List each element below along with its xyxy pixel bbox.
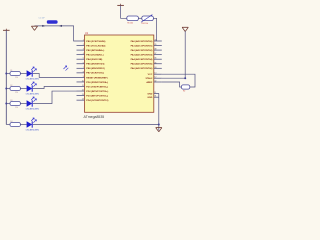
svg-text:ATmega8535: ATmega8535 — [84, 115, 105, 119]
svg-text:R2: R2 — [10, 85, 12, 87]
svg-text:2: 2 — [83, 44, 84, 46]
svg-text:XTAL2: XTAL2 — [146, 77, 154, 80]
svg-text:C1 1nF: C1 1nF — [39, 17, 46, 19]
svg-text:GND: GND — [147, 93, 152, 95]
svg-text:R2: R2 — [183, 91, 185, 93]
svg-text:PA2 (ADC2/PCINT02): PA2 (ADC2/PCINT02) — [131, 49, 153, 52]
svg-text:11: 11 — [154, 92, 156, 94]
svg-text:LED-BIRU-BIRU: LED-BIRU-BIRU — [26, 130, 40, 132]
svg-text:PD2 (INT0/PCINT10+): PD2 (INT0/PCINT10+) — [86, 91, 108, 93]
svg-text:40: 40 — [154, 40, 156, 42]
svg-text:220: 220 — [15, 77, 18, 79]
svg-text:LED-BIRU-BIRU: LED-BIRU-BIRU — [26, 79, 40, 81]
svg-text:PA1 (ADC1/PCINT01): PA1 (ADC1/PCINT01) — [131, 44, 153, 47]
svg-text:PA4 (ADC4/PCINT04): PA4 (ADC4/PCINT04) — [131, 58, 153, 61]
svg-text:35: 35 — [154, 62, 156, 64]
svg-text:31: 31 — [154, 96, 156, 98]
svg-text:13: 13 — [82, 94, 84, 96]
svg-text:PB6 (MISO/RXD1): PB6 (MISO/RXD1) — [86, 68, 105, 70]
svg-text:LED-BIRU-BIRU: LED-BIRU-BIRU — [26, 109, 40, 111]
svg-text:PB3 (OC0/AIN1-): PB3 (OC0/AIN1-) — [86, 54, 103, 57]
svg-text:12: 12 — [154, 77, 156, 79]
svg-text:PD1 (TXD/PCINT09+): PD1 (TXD/PCINT09+) — [86, 86, 108, 88]
svg-text:RESET (PEN/IOREF): RESET (PEN/IOREF) — [86, 77, 107, 79]
svg-text:R5 100: R5 100 — [127, 23, 133, 25]
svg-text:PB7 (SCK/TOSC): PB7 (SCK/TOSC) — [86, 73, 104, 75]
svg-text:PA6 (ADC6/PCINT06): PA6 (ADC6/PCINT06) — [131, 67, 153, 70]
svg-text:R1: R1 — [10, 70, 12, 72]
svg-text:14: 14 — [82, 99, 84, 101]
svg-text:PD3 (INT1/PCINT11+): PD3 (INT1/PCINT11+) — [86, 95, 108, 97]
svg-text:220: 220 — [15, 107, 18, 109]
svg-text:6: 6 — [83, 62, 84, 64]
svg-text:LED-BIRU-BIRU: LED-BIRU-BIRU — [26, 94, 40, 96]
svg-text:10: 10 — [82, 80, 84, 82]
svg-text:4: 4 — [83, 53, 84, 55]
svg-text:1: 1 — [83, 40, 84, 42]
svg-text:34: 34 — [154, 67, 156, 69]
svg-text:8: 8 — [83, 71, 84, 73]
svg-text:9: 9 — [83, 76, 84, 78]
svg-text:39: 39 — [154, 44, 156, 46]
svg-text:PA5 (ADC5/PCINT05): PA5 (ADC5/PCINT05) — [131, 63, 153, 66]
svg-text:PB2 (INT2/AIN0+): PB2 (INT2/AIN0+) — [86, 49, 104, 52]
svg-text:220: 220 — [15, 92, 18, 94]
svg-text:36: 36 — [154, 58, 156, 60]
svg-text:PD0 (RXD/PCINT08+): PD0 (RXD/PCINT08+) — [86, 82, 108, 84]
svg-text:GND: GND — [147, 97, 152, 99]
svg-text:R4: R4 — [10, 121, 12, 123]
svg-text:10: 10 — [154, 73, 156, 75]
svg-text:PB5 (MOSI/TXD1): PB5 (MOSI/TXD1) — [86, 64, 104, 66]
svg-text:RV1 10k: RV1 10k — [142, 23, 149, 25]
svg-text:PB1 (T1/CLKO/A0): PB1 (T1/CLKO/A0) — [86, 44, 105, 47]
svg-text:32: 32 — [154, 81, 156, 83]
svg-text:PA3 (ADC3/PCINT03): PA3 (ADC3/PCINT03) — [131, 54, 153, 57]
svg-text:38: 38 — [154, 49, 156, 51]
svg-text:R3: R3 — [10, 100, 12, 102]
svg-text:37: 37 — [154, 53, 156, 55]
svg-text:5: 5 — [83, 58, 84, 60]
svg-text:7: 7 — [83, 67, 84, 69]
svg-text:AREF: AREF — [146, 81, 153, 84]
svg-text:PB0 (XCK/T0/AD0): PB0 (XCK/T0/AD0) — [86, 40, 105, 43]
svg-text:11: 11 — [82, 85, 84, 87]
svg-text:3: 3 — [83, 49, 84, 51]
svg-text:VCC: VCC — [148, 74, 153, 76]
svg-text:PD4 (OC1B/PCINT12): PD4 (OC1B/PCINT12) — [86, 99, 108, 102]
svg-text:12: 12 — [82, 90, 84, 92]
svg-text:PA0 (ADC0/PCINT00): PA0 (ADC0/PCINT00) — [131, 40, 153, 43]
svg-text:PB4 (SS/OC0B): PB4 (SS/OC0B) — [86, 58, 102, 61]
